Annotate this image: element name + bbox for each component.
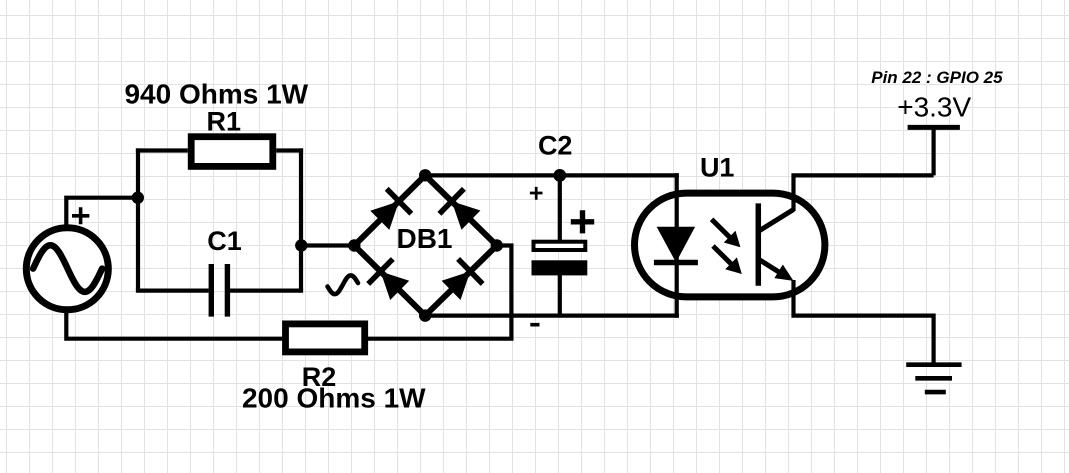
AC source V1: [26, 228, 108, 310]
optocoupler U1 body: [635, 193, 825, 297]
node B junction dot: [295, 239, 307, 251]
wire R1 right vertical: [299, 148, 303, 290]
wire collector to power rail: [794, 175, 934, 211]
DB1 vertex node dots: [348, 169, 503, 322]
capacitor C1: [136, 264, 303, 317]
capacitor C2: [532, 175, 588, 315]
DB1 diode lower-right: [442, 259, 483, 300]
svg-text:U1: U1: [700, 153, 735, 183]
svg-text:C2: C2: [538, 130, 573, 160]
svg-text:+3.3V: +3.3V: [897, 92, 971, 123]
wire node A vertical: [136, 148, 140, 290]
resistor R1: [136, 137, 303, 167]
bridge DB1 diamond: [354, 175, 497, 315]
wire bridge plus rail to LED anode: [425, 173, 679, 177]
ground: [906, 365, 961, 392]
U1 LED: [654, 173, 698, 317]
wire R2 to bridge right vertex: [368, 246, 511, 339]
C2 plus polarity mark: [571, 210, 594, 233]
U1 light arrows: [712, 219, 742, 274]
DB1 diode upper-right: [439, 189, 480, 230]
svg-text:DB1: DB1: [396, 223, 452, 254]
svg-text:940 Ohms 1W: 940 Ohms 1W: [124, 78, 308, 109]
V1 plus polarity label: [72, 207, 89, 224]
DB1 diode lower-left: [368, 259, 409, 300]
svg-text:200 Ohms 1W: 200 Ohms 1W: [242, 382, 426, 413]
node C2 junction dot: [553, 169, 566, 182]
wire power rail riser: [931, 127, 935, 175]
svg-text:C1: C1: [207, 226, 242, 256]
wire V1 top to node A: [66, 198, 137, 226]
wire node B to bridge left vertex: [301, 243, 354, 247]
power +3.3V symbol: [908, 125, 960, 130]
AC input squiggle marker: [328, 275, 359, 294]
svg-text:Pin 22 : GPIO 25: Pin 22 : GPIO 25: [871, 68, 1003, 87]
U1 phototransistor: [758, 203, 793, 285]
minus output label: [530, 323, 539, 327]
resistor R2: [286, 324, 365, 352]
DB1 diode upper-left: [370, 189, 411, 230]
wire V1 bottom to R2: [66, 311, 282, 339]
svg-text:R1: R1: [207, 107, 242, 137]
wire emitter to ground: [794, 280, 934, 363]
wire bridge minus rail to LED cathode: [425, 314, 679, 318]
plus output label: [530, 187, 543, 200]
node A junction dot: [132, 192, 144, 204]
